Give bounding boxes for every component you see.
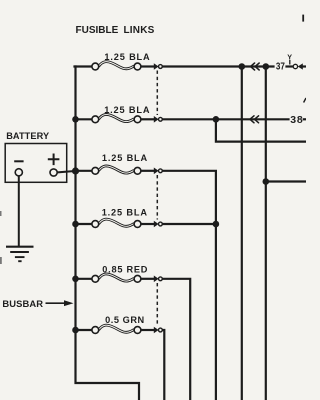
svg-text:BATTERY: BATTERY xyxy=(6,131,49,141)
svg-text:0.5 GRN: 0.5 GRN xyxy=(105,315,145,325)
svg-text:FUSIBLE: FUSIBLE xyxy=(76,25,119,36)
svg-text:0.85 RED: 0.85 RED xyxy=(102,265,148,275)
svg-text:1.25 BLA: 1.25 BLA xyxy=(104,105,150,115)
svg-text:37: 37 xyxy=(276,61,285,72)
svg-text:Y: Y xyxy=(287,52,292,61)
svg-text:38: 38 xyxy=(290,114,303,126)
svg-text:1.25 BLA: 1.25 BLA xyxy=(102,153,148,163)
svg-text:1.25 BLA: 1.25 BLA xyxy=(104,52,150,62)
svg-text:LINKS: LINKS xyxy=(124,25,155,36)
svg-text:1.25 BLA: 1.25 BLA xyxy=(102,207,148,217)
svg-text:BUSBAR: BUSBAR xyxy=(2,298,43,309)
